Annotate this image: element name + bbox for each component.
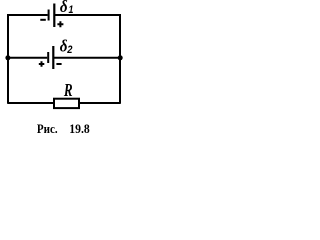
- svg-text:R: R: [63, 81, 73, 100]
- svg-text:2: 2: [66, 44, 72, 56]
- svg-text:δ: δ: [60, 0, 68, 16]
- svg-text:1: 1: [69, 4, 74, 16]
- svg-text:δ: δ: [60, 38, 68, 56]
- svg-text:19.8: 19.8: [69, 122, 89, 137]
- svg-text:Рис.: Рис.: [37, 121, 58, 136]
